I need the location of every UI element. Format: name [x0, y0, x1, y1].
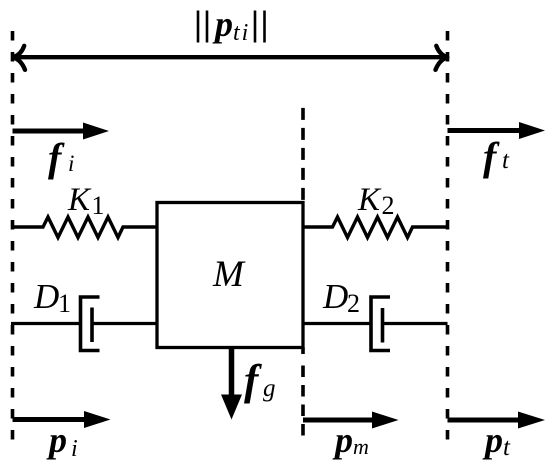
svg-text:g: g: [263, 375, 276, 402]
damper D2 wire from mass: [303, 322, 371, 325]
dimension arrow ||p_ti|| shaft: [15, 55, 446, 59]
position arrow p_m shaft: [303, 418, 375, 423]
damper D1 piston: [90, 308, 94, 343]
force arrow f_t shaft: [448, 128, 523, 133]
svg-text:p: p: [482, 420, 503, 460]
label D2: [322, 277, 360, 318]
force arrow f_i shaft: [13, 129, 87, 134]
label ||p_ti|| text: [212, 4, 250, 46]
svg-text:i: i: [68, 151, 74, 176]
svg-text:K: K: [67, 182, 92, 218]
damper D2 cylinder: [371, 297, 390, 351]
svg-text:p: p: [212, 4, 233, 44]
damper D1 rod to mass: [92, 322, 157, 325]
label f_i: [48, 135, 74, 180]
svg-text:1: 1: [58, 289, 71, 318]
svg-text:t: t: [503, 434, 511, 461]
svg-text:D: D: [322, 277, 348, 316]
gravity arrow f_g shaft: [229, 348, 235, 398]
node m dashed line lower segment: [301, 348, 305, 355]
svg-text:p: p: [332, 420, 353, 460]
svg-text:f: f: [483, 134, 500, 179]
svg-text:1: 1: [92, 191, 105, 220]
position arrow p_m head: [372, 412, 399, 429]
svg-text:m: m: [353, 434, 369, 459]
force arrow f_t head: [519, 122, 545, 139]
svg-text:f: f: [48, 135, 65, 180]
svg-text:2: 2: [382, 191, 395, 220]
svg-text:f: f: [244, 357, 262, 404]
label p_i: [46, 420, 78, 462]
label D1: [33, 277, 71, 318]
svg-text:t: t: [502, 147, 510, 174]
svg-text:i: i: [71, 436, 78, 462]
label p_t: [482, 420, 511, 461]
label f_g: [244, 357, 276, 404]
position arrow p_i head: [84, 411, 111, 428]
position arrow p_t shaft: [448, 418, 523, 423]
position arrow p_t head: [518, 412, 545, 429]
force arrow f_i head: [83, 123, 109, 140]
label ||p_ti|| norm bars left: [197, 11, 200, 43]
damper D1 cylinder: [81, 297, 100, 351]
svg-text:ti: ti: [233, 20, 250, 46]
dimension arrow left curved head: [13, 46, 25, 70]
label K1: [67, 182, 105, 220]
dimension arrow right curved head: [436, 46, 448, 70]
svg-text:p: p: [46, 420, 67, 460]
damper D2 rod to tool line: [383, 322, 448, 325]
damper D1 left wire: [11, 322, 79, 325]
position arrow p_i shaft: [13, 417, 88, 422]
spring K1: [11, 217, 157, 238]
label p_m: [332, 420, 369, 460]
node t dashed line (right, tool position): [446, 31, 450, 443]
node m dashed line lower dashes: [301, 366, 305, 443]
svg-text:M: M: [212, 254, 246, 295]
svg-text:2: 2: [347, 289, 360, 318]
label f_t: [483, 134, 510, 179]
damper D2 piston: [381, 308, 385, 343]
label K2: [357, 182, 395, 220]
svg-text:D: D: [33, 277, 59, 316]
spring K2: [303, 217, 448, 238]
node m dashed line (middle, mass position) upper segment: [301, 108, 305, 202]
gravity arrow f_g head: [221, 395, 242, 420]
node i dashed line (left, position of interaction point i): [11, 31, 15, 441]
svg-text:K: K: [357, 182, 382, 218]
mass M box: [157, 203, 303, 348]
label ||p_ti|| norm bars right: [254, 11, 257, 43]
